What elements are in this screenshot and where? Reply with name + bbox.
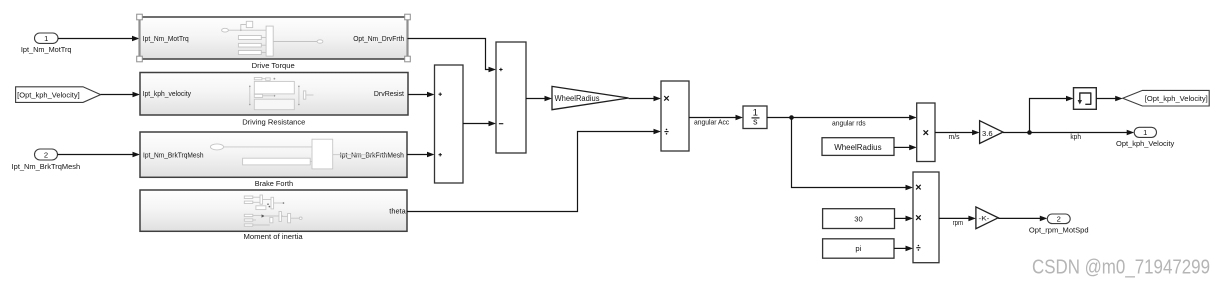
- svg-text:Moment of inertia: Moment of inertia: [244, 232, 304, 241]
- svg-text:-K-: -K-: [979, 215, 990, 222]
- svg-text:angular rds: angular rds: [832, 118, 866, 127]
- constant WheelRadius: [822, 138, 894, 156]
- wire Divide out to Integrator: [689, 115, 743, 127]
- Brake Forth interior preview: [210, 139, 388, 169]
- svg-text:rpm: rpm: [953, 218, 964, 227]
- Subtract block: [496, 42, 526, 153]
- Memory block: [1074, 88, 1097, 110]
- svg-text:Brake Forth: Brake Forth: [255, 179, 293, 188]
- junction node: [789, 115, 794, 120]
- gain WheelRadius: [552, 86, 629, 109]
- svg-text:1: 1: [44, 34, 48, 43]
- svg-text:Driving Resistance: Driving Resistance: [242, 118, 305, 127]
- wire Product2 to -K- gain: [939, 216, 976, 228]
- svg-text:[Opt_kph_Velocity]: [Opt_kph_Velocity]: [17, 90, 79, 99]
- svg-text:kph: kph: [1070, 132, 1081, 141]
- inport 1: [21, 33, 72, 54]
- Add block: [435, 65, 464, 183]
- svg-text:WheelRadius: WheelRadius: [834, 143, 881, 152]
- wire Brake Forth out to Add: [407, 152, 435, 158]
- wire From tag to Driving Resistance: [101, 92, 140, 98]
- wire WheelRadius gain to Divide x: [629, 96, 661, 102]
- wire inport2 to Brake Forth: [58, 152, 141, 158]
- outport 1: [1116, 127, 1174, 148]
- svg-text:angular Acc: angular Acc: [694, 118, 730, 127]
- gain -K-: [976, 207, 998, 229]
- constant pi: [823, 239, 894, 258]
- wire 3.6 to outport 1 (kph): [1003, 130, 1134, 141]
- wire pi to Product2: [894, 246, 913, 252]
- svg-text:Ipt_Nm_BrkTrqMesh: Ipt_Nm_BrkTrqMesh: [143, 150, 204, 159]
- svg-text:pi: pi: [855, 244, 861, 253]
- svg-text:m/s: m/s: [949, 132, 960, 141]
- subsystem Drive Torque: [140, 17, 408, 70]
- Divide block: [661, 81, 689, 151]
- svg-text:[Opt_kph_Velocity]: [Opt_kph_Velocity]: [1145, 94, 1208, 103]
- subsystem Brake Forth: [140, 132, 407, 188]
- constant 30: [823, 209, 895, 229]
- gain 3.6: [980, 121, 1003, 144]
- svg-text:Opt_kph_Velocity: Opt_kph_Velocity: [1116, 139, 1174, 148]
- svg-text:2: 2: [44, 151, 48, 160]
- svg-text:DrvResist: DrvResist: [374, 89, 404, 98]
- svg-text:Opt_Nm_DrvFrth: Opt_Nm_DrvFrth: [353, 34, 404, 43]
- inport 2: [12, 149, 81, 171]
- selection edges Drive Torque: [140, 16, 408, 60]
- From tag [Opt_kph_Velocity]: [16, 87, 101, 103]
- wire DrvResist out to Add: [408, 92, 435, 98]
- svg-text:CSDN @m0_71947299: CSDN @m0_71947299: [1032, 256, 1210, 279]
- svg-text:theta: theta: [389, 207, 406, 216]
- svg-text:Ipt_kph_velocity: Ipt_kph_velocity: [143, 89, 192, 98]
- wire -K- to outport 2: [998, 216, 1047, 222]
- wire Memory to Goto tag: [1096, 96, 1122, 102]
- svg-text:Drive Torque: Drive Torque: [252, 61, 295, 70]
- svg-text:s: s: [753, 116, 758, 126]
- svg-text:WheelRadius: WheelRadius: [555, 94, 600, 103]
- wire Add out to Subtract -: [463, 121, 496, 127]
- subsystem Moment of inertia: [140, 190, 407, 241]
- wire Integrator out to Product (angular rds): [767, 115, 917, 128]
- wire Subtract out to WheelRadius gain: [526, 96, 552, 102]
- wire Product to 3.6 gain: [935, 130, 980, 141]
- svg-text:Ipt_Nm_BrkTrqMesh: Ipt_Nm_BrkTrqMesh: [12, 162, 81, 171]
- svg-text:Ipt_Nm_MotTrq: Ipt_Nm_MotTrq: [21, 45, 72, 54]
- Product block (m/s): [917, 103, 935, 162]
- svg-text:Ipt_Nm_MotTrq: Ipt_Nm_MotTrq: [143, 34, 189, 43]
- Drive Torque interior preview: [222, 21, 323, 56]
- outport 2: [1029, 214, 1089, 235]
- wire theta to Divide /: [407, 129, 661, 212]
- Product block 2 (rpm): [913, 172, 939, 263]
- wire junction up to Memory: [1030, 96, 1074, 133]
- svg-text:3.6: 3.6: [982, 129, 993, 138]
- wire inport1 to Drive Torque: [58, 36, 140, 42]
- svg-text:Opt_rpm_MotSpd: Opt_rpm_MotSpd: [1029, 226, 1089, 235]
- selection handles Drive Torque: [137, 14, 411, 62]
- Integrator 1/s: [743, 106, 767, 129]
- subsystem Driving Resistance: [140, 73, 408, 127]
- wire junction down to bottom Product: [792, 118, 914, 191]
- Driving Resistance interior preview: [249, 78, 314, 110]
- Moment of inertia interior preview: [244, 195, 302, 226]
- svg-text:1: 1: [1143, 128, 1147, 137]
- wire Drive Torque out to Subtract +: [408, 39, 497, 73]
- junction node kph: [1027, 130, 1032, 135]
- svg-text:2: 2: [1057, 214, 1061, 223]
- wire WheelRadius const to Product: [894, 145, 917, 151]
- svg-text:30: 30: [854, 214, 862, 223]
- Goto tag [Opt_kph_Velocity]: [1123, 90, 1210, 106]
- wire 30 to Product2: [895, 216, 914, 222]
